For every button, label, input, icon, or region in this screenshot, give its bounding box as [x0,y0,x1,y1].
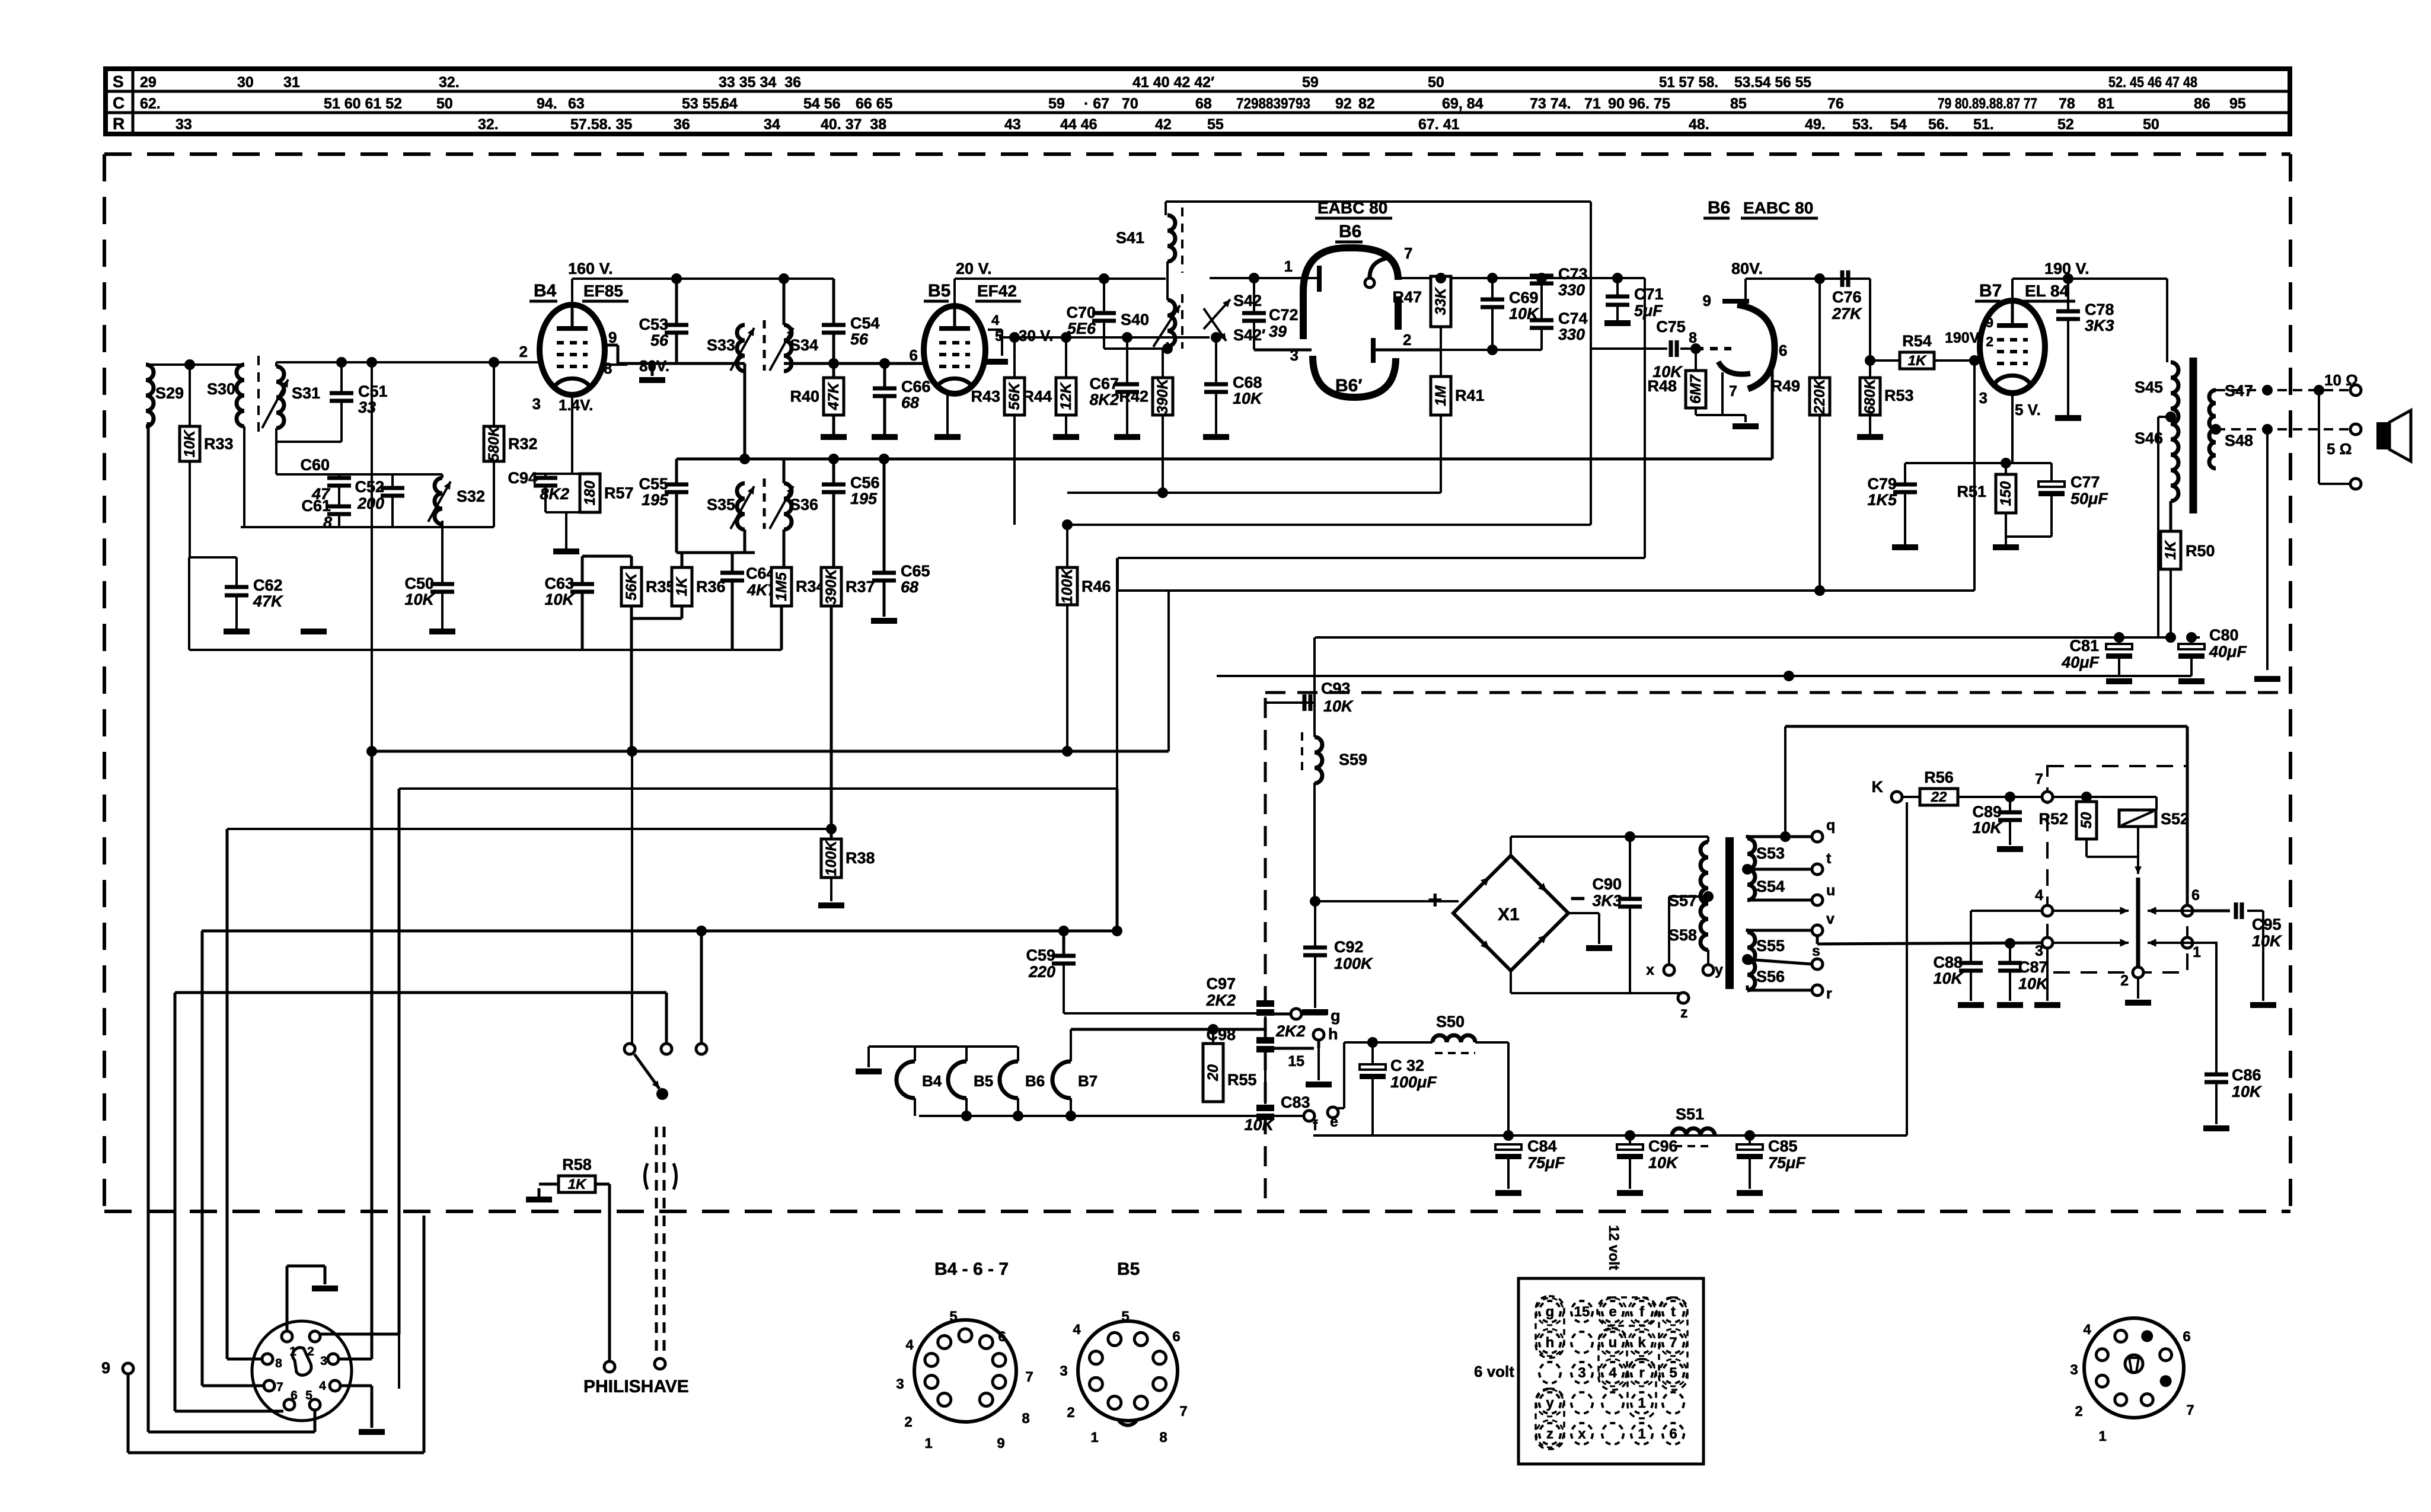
svg-text:8: 8 [1159,1430,1167,1446]
svg-text:z: z [1680,1004,1688,1021]
svg-text:4: 4 [319,1379,326,1393]
svg-text:29: 29 [140,74,157,91]
svg-text:C65: C65 [901,562,930,580]
svg-text:64: 64 [721,95,738,112]
svg-text:C79: C79 [1867,475,1897,493]
svg-text:75μF: 75μF [1768,1154,1806,1172]
svg-text:9: 9 [997,1436,1004,1452]
svg-text:680K: 680K [1862,378,1878,414]
svg-text:59: 59 [1302,74,1319,91]
svg-text:B4 - 6 - 7: B4 - 6 - 7 [934,1259,1009,1279]
svg-text:1K: 1K [674,576,690,596]
svg-text:76: 76 [1827,95,1844,112]
svg-text:C63: C63 [544,575,574,592]
svg-text:R57: R57 [604,484,634,502]
svg-text:10K: 10K [1972,819,2003,837]
svg-text:· 67: · 67 [1084,95,1109,112]
svg-text:57.58. 35: 57.58. 35 [570,116,632,133]
svg-text:86: 86 [2194,95,2210,112]
svg-text:S33: S33 [707,336,735,354]
svg-text:85: 85 [1730,95,1747,112]
svg-text:10K: 10K [1233,390,1264,407]
svg-text:R49: R49 [1770,377,1800,395]
svg-text:t: t [1826,850,1832,867]
svg-text:B4: B4 [922,1072,942,1090]
svg-text:32.: 32. [439,74,460,91]
svg-text:56: 56 [850,330,869,348]
svg-text:C71: C71 [1634,285,1664,303]
svg-text:R32: R32 [508,435,538,453]
svg-text:390K: 390K [1154,378,1171,414]
svg-text:y: y [1715,962,1723,978]
svg-text:12K: 12K [1058,382,1074,410]
svg-text:S57: S57 [1668,892,1697,910]
svg-text:3: 3 [532,395,541,413]
svg-text:4: 4 [991,312,1000,328]
svg-text:44 46: 44 46 [1060,116,1098,133]
svg-text:6: 6 [291,1389,298,1402]
svg-text:8K2: 8K2 [540,485,569,503]
svg-text:31: 31 [283,74,300,91]
svg-text:33: 33 [176,116,192,133]
svg-text:v: v [1826,911,1835,927]
svg-text:79 80.89.88.87 77: 79 80.89.88.87 77 [1938,95,2037,112]
svg-text:27K: 27K [1832,305,1863,323]
svg-text:S58: S58 [1668,926,1697,944]
svg-text:1K: 1K [2162,540,2179,560]
svg-text:69, 84: 69, 84 [1442,95,1484,112]
svg-text:S51: S51 [1676,1105,1704,1123]
svg-text:52. 45 46 47 48: 52. 45 46 47 48 [2108,74,2197,91]
svg-text:C80: C80 [2209,626,2239,644]
svg-text:EF42: EF42 [977,282,1017,300]
svg-text:8: 8 [604,359,612,377]
svg-text:S52: S52 [2161,810,2189,828]
svg-text:20 V.: 20 V. [956,260,992,277]
svg-text:9: 9 [1703,292,1711,310]
svg-text:9: 9 [101,1359,110,1377]
svg-text:f: f [1313,1117,1318,1134]
svg-text:g: g [1546,1304,1555,1320]
svg-text:92: 92 [1335,95,1352,112]
svg-text:R54: R54 [1902,332,1932,350]
svg-text:100K: 100K [823,840,840,876]
svg-text:B7: B7 [1078,1072,1098,1090]
svg-text:S40: S40 [1121,311,1149,328]
svg-text:6: 6 [910,346,918,364]
svg-text:10K: 10K [1244,1116,1275,1134]
svg-text:R52: R52 [2038,810,2068,828]
svg-text:B5: B5 [974,1072,993,1090]
svg-text:t: t [1671,1304,1676,1320]
svg-text:10K: 10K [181,429,198,458]
svg-text:y: y [1546,1395,1554,1411]
svg-text:C60: C60 [300,456,330,474]
svg-text:R51: R51 [1957,483,1986,500]
svg-text:C55: C55 [639,475,668,493]
svg-text:5 Ω: 5 Ω [2327,440,2352,458]
svg-text:15: 15 [1288,1053,1304,1070]
svg-text:C84: C84 [1527,1137,1557,1155]
svg-text:R37: R37 [846,578,875,596]
svg-text:R55: R55 [1227,1071,1257,1089]
svg-text:B7: B7 [1979,281,2002,301]
svg-text:12 volt: 12 volt [1606,1225,1622,1270]
svg-text:30 V.: 30 V. [1019,327,1053,344]
svg-text:R: R [113,114,125,133]
svg-text:32.: 32. [478,116,499,133]
svg-text:2: 2 [519,343,528,361]
svg-text:C83: C83 [1281,1093,1310,1111]
svg-text:52: 52 [2057,116,2074,133]
svg-text:3: 3 [1290,346,1299,364]
svg-text:R44: R44 [1022,388,1052,406]
svg-text:S42: S42 [1233,292,1262,310]
svg-text:56K: 56K [623,572,640,601]
svg-text:81: 81 [2098,95,2114,112]
svg-text:63: 63 [568,95,585,112]
svg-text:S35: S35 [707,496,735,513]
svg-text:3: 3 [1578,1365,1585,1381]
svg-text:C86: C86 [2232,1066,2261,1084]
svg-text:390K: 390K [823,568,840,605]
svg-text:5E6: 5E6 [1067,320,1096,337]
svg-text:30: 30 [237,74,254,91]
svg-text:7298839793: 7298839793 [1236,95,1310,112]
svg-text:75μF: 75μF [1527,1154,1565,1172]
svg-text:47K: 47K [825,382,842,411]
svg-text:10K: 10K [2018,975,2049,993]
svg-text:66 65: 66 65 [856,95,893,112]
svg-text:C81: C81 [2069,637,2099,655]
svg-text:1K: 1K [568,1176,587,1192]
svg-text:R42: R42 [1119,388,1148,406]
svg-text:S48: S48 [2225,432,2253,449]
svg-text:C54: C54 [850,314,880,332]
svg-text:43: 43 [1004,116,1021,133]
svg-text:C68: C68 [1233,374,1262,391]
svg-text:62.: 62. [140,95,161,112]
svg-text:q: q [1826,817,1835,834]
svg-text:7: 7 [1404,244,1412,262]
svg-text:C62: C62 [253,576,283,594]
svg-text:56: 56 [650,331,669,349]
svg-text:B6: B6 [1025,1072,1045,1090]
svg-text:94.: 94. [537,95,557,112]
svg-text:15: 15 [1574,1304,1590,1320]
svg-text:2: 2 [904,1414,912,1430]
svg-text:1: 1 [924,1436,932,1452]
svg-text:70: 70 [1122,95,1138,112]
svg-text:4: 4 [2083,1322,2091,1338]
svg-text:EF85: EF85 [583,282,623,300]
svg-text:C73: C73 [1558,265,1588,283]
svg-text:54 56: 54 56 [803,95,841,112]
svg-text:50: 50 [436,95,453,112]
svg-text:9: 9 [1986,315,1993,330]
svg-text:10K: 10K [1323,697,1354,715]
svg-text:K: K [1872,778,1884,796]
svg-text:1M5: 1M5 [773,572,790,601]
svg-text:68: 68 [901,394,919,412]
svg-text:C92: C92 [1334,938,1364,956]
svg-text:S34: S34 [790,336,818,354]
svg-text:R56: R56 [1924,768,1954,786]
svg-text:C89: C89 [1972,803,2002,821]
svg-text:S45: S45 [2135,378,2163,396]
svg-text:S55: S55 [1756,937,1785,955]
svg-text:C75: C75 [1656,318,1686,336]
svg-text:S59: S59 [1339,751,1367,768]
svg-text:S32: S32 [457,487,485,505]
svg-text:51 60 61 52: 51 60 61 52 [324,95,402,112]
svg-text:X1: X1 [1498,905,1520,924]
svg-text:56K: 56K [1006,382,1023,410]
svg-text:100K: 100K [1059,567,1076,604]
svg-text:S: S [113,72,124,91]
svg-text:e: e [1609,1304,1616,1320]
svg-text:33K: 33K [1433,287,1449,315]
svg-text:C 32: C 32 [1390,1057,1424,1074]
svg-text:EL 84: EL 84 [2025,282,2069,300]
svg-text:R38: R38 [846,849,875,867]
svg-text:10K: 10K [2252,932,2283,950]
svg-text:50: 50 [2078,812,2095,829]
svg-text:C76: C76 [1832,288,1862,306]
svg-text:2: 2 [1986,334,1993,349]
svg-text:S41: S41 [1116,229,1144,247]
svg-text:6: 6 [998,1329,1006,1345]
svg-text:1: 1 [1090,1430,1098,1446]
svg-text:1.4V.: 1.4V. [559,396,593,414]
svg-text:100μF: 100μF [1390,1073,1437,1091]
svg-text:6: 6 [2183,1329,2190,1345]
svg-text:S31: S31 [292,384,320,402]
svg-text:220K: 220K [1811,378,1828,415]
svg-text:54: 54 [1890,116,1907,133]
svg-text:2: 2 [1403,331,1411,349]
svg-text:R43: R43 [971,388,1000,406]
svg-text:s: s [1812,943,1820,959]
svg-text:53 55.: 53 55. [682,95,723,112]
svg-text:59: 59 [1048,95,1065,112]
svg-text:56.: 56. [1928,116,1949,133]
svg-text:8: 8 [275,1357,282,1370]
svg-text:r: r [1826,985,1832,1002]
svg-text:3: 3 [2035,943,2043,959]
svg-text:1: 1 [1638,1395,1645,1411]
svg-text:x: x [1646,962,1654,978]
svg-text:22: 22 [1931,789,1947,805]
svg-text:180: 180 [582,481,598,506]
svg-text:C78: C78 [2085,301,2114,318]
svg-text:7: 7 [276,1380,283,1394]
svg-text:C69: C69 [1509,289,1539,307]
svg-text:33: 33 [358,398,376,416]
svg-text:5 V.: 5 V. [2015,401,2041,419]
svg-text:10K: 10K [1648,1154,1679,1172]
svg-text:B5: B5 [928,281,950,301]
svg-text:z: z [1546,1426,1553,1442]
svg-text:C: C [113,94,125,112]
svg-text:B6: B6 [1708,198,1730,218]
svg-text:50: 50 [2143,116,2159,133]
svg-text:S42′: S42′ [1233,326,1266,344]
svg-text:47K: 47K [253,592,284,610]
svg-text:50μF: 50μF [2071,490,2108,508]
svg-text:C53: C53 [639,315,668,333]
svg-text:EABC 80: EABC 80 [1317,199,1387,217]
svg-text:73 74.: 73 74. [1530,95,1571,112]
svg-text:S36: S36 [790,496,818,513]
svg-text:1: 1 [1284,257,1293,275]
svg-text:R53: R53 [1884,387,1914,404]
svg-text:u: u [1609,1335,1618,1351]
svg-text:C77: C77 [2071,473,2100,491]
svg-text:40. 37 38: 40. 37 38 [821,116,886,133]
svg-text:40μF: 40μF [2061,653,2100,671]
svg-text:R58: R58 [562,1156,592,1173]
svg-text:R47: R47 [1392,288,1422,306]
svg-text:10K: 10K [544,591,575,608]
svg-text:2K2: 2K2 [1275,1022,1306,1040]
svg-text:7: 7 [1729,383,1737,400]
svg-text:100K: 100K [1334,955,1374,972]
svg-text:C59: C59 [1026,946,1055,964]
svg-text:+: + [1428,886,1443,914]
svg-text:5: 5 [1669,1365,1677,1381]
svg-text:f: f [1639,1304,1645,1320]
svg-text:50: 50 [1428,74,1444,91]
svg-text:51.: 51. [1973,116,1994,133]
svg-text:80V.: 80V. [1731,260,1763,277]
svg-text:40μF: 40μF [2209,643,2247,661]
svg-text:220: 220 [1028,963,1055,981]
svg-text:34: 34 [764,116,780,133]
svg-text:36: 36 [674,116,690,133]
svg-text:C97: C97 [1206,975,1236,993]
svg-text:33 35 34 36: 33 35 34 36 [719,74,801,91]
svg-text:S53: S53 [1756,844,1785,862]
svg-text:6: 6 [1172,1329,1180,1345]
svg-text:S30: S30 [207,380,235,398]
svg-text:195: 195 [642,491,669,509]
svg-text:4: 4 [1609,1365,1617,1381]
svg-text:C66: C66 [901,378,931,395]
svg-text:C88: C88 [1933,953,1963,971]
svg-text:1: 1 [2193,944,2201,961]
svg-text:S54: S54 [1756,878,1785,895]
svg-text:330: 330 [1558,326,1585,343]
svg-text:R48: R48 [1647,377,1677,395]
svg-text:B6: B6 [1339,222,1361,241]
svg-text:78: 78 [2059,95,2075,112]
svg-text:2: 2 [1067,1405,1074,1421]
svg-text:R50: R50 [2186,542,2215,560]
svg-text:2: 2 [2120,972,2129,989]
svg-text:330: 330 [1558,281,1585,299]
svg-text:C98: C98 [1206,1026,1236,1044]
svg-text:68: 68 [901,578,918,596]
svg-text:580K: 580K [486,425,502,462]
svg-text:C52: C52 [355,478,384,496]
svg-text:R33: R33 [204,435,234,453]
svg-text:S50: S50 [1436,1013,1465,1031]
svg-text:68: 68 [1195,95,1212,112]
svg-text:B4: B4 [534,281,557,301]
svg-text:C87: C87 [2018,958,2048,976]
svg-text:1M: 1M [1433,385,1449,406]
svg-text:C94: C94 [508,469,537,487]
svg-text:C93: C93 [1321,680,1351,697]
svg-text:3: 3 [896,1376,904,1392]
svg-text:6: 6 [1779,342,1787,359]
svg-text:k: k [1638,1335,1646,1351]
svg-text:200: 200 [357,495,384,512]
svg-text:4: 4 [905,1337,914,1353]
svg-text:6 volt: 6 volt [1474,1363,1514,1380]
svg-text:51 57 58.: 51 57 58. [1659,74,1718,91]
svg-text:R46: R46 [1081,578,1111,595]
svg-text:1K: 1K [1908,353,1927,369]
svg-text:82: 82 [1358,95,1375,112]
svg-text:3: 3 [320,1354,327,1368]
svg-text:3K3: 3K3 [2085,317,2114,334]
svg-text:2K2: 2K2 [1205,991,1236,1009]
svg-text:95: 95 [2229,95,2246,112]
svg-text:C50: C50 [404,575,434,592]
svg-text:C67: C67 [1089,375,1119,393]
svg-text:3: 3 [1060,1363,1067,1379]
svg-text:3K3: 3K3 [1592,892,1622,910]
svg-text:160 V.: 160 V. [568,260,613,277]
svg-text:C74: C74 [1558,310,1588,327]
svg-text:PHILISHAVE: PHILISHAVE [583,1377,689,1396]
svg-text:u: u [1826,882,1835,899]
svg-text:5: 5 [1121,1309,1129,1325]
svg-text:C61: C61 [301,497,331,515]
svg-text:C85: C85 [1768,1137,1798,1155]
svg-text:7: 7 [1669,1335,1677,1351]
svg-text:C90: C90 [1592,875,1622,893]
svg-text:3: 3 [2070,1362,2078,1378]
svg-text:7: 7 [2035,771,2043,787]
svg-text:−: − [1570,884,1585,913]
svg-text:R40: R40 [790,388,819,406]
svg-text:80V.: 80V. [639,357,669,375]
svg-text:10K: 10K [404,591,435,608]
svg-text:R41: R41 [1455,387,1485,404]
svg-text:10K: 10K [1933,969,1964,987]
svg-text:h: h [1328,1025,1338,1043]
svg-text:C56: C56 [850,474,880,492]
svg-text:e: e [1330,1114,1338,1130]
svg-text:7: 7 [2186,1402,2194,1418]
svg-text:39: 39 [1269,323,1287,340]
svg-text:49.: 49. [1805,116,1826,133]
svg-text:67. 41: 67. 41 [1418,116,1460,133]
svg-text:7: 7 [1179,1403,1187,1420]
svg-text:42: 42 [1155,116,1172,133]
svg-text:3: 3 [1979,389,1987,407]
svg-text:71: 71 [1584,95,1601,112]
svg-text:6: 6 [2191,887,2200,904]
svg-text:2: 2 [2075,1403,2082,1420]
svg-text:6: 6 [1669,1426,1677,1442]
svg-text:g: g [1331,1007,1341,1025]
svg-text:B6′: B6′ [1335,376,1363,395]
svg-text:53.54 56 55: 53.54 56 55 [1734,74,1811,91]
